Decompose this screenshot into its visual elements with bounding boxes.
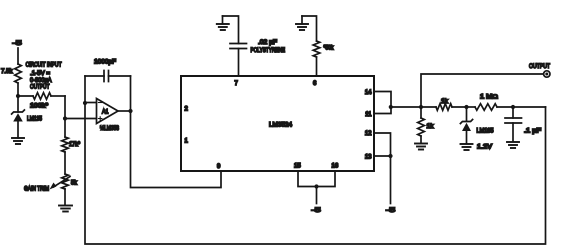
svg-text:OUTPUT: OUTPUT xyxy=(529,63,550,70)
capacitor .02uF polystyrene xyxy=(230,44,247,49)
svg-text:1 MΩ: 1 MΩ xyxy=(480,94,498,100)
svg-text:GAIN TRIM: GAIN TRIM xyxy=(24,186,49,193)
wire 17k to gain trim pot xyxy=(64,152,66,174)
svg-text:-5: -5 xyxy=(386,207,396,214)
svg-text:LM185: LM185 xyxy=(477,129,495,135)
capacitor .1uF xyxy=(512,107,514,118)
resistor 1k series xyxy=(421,106,436,108)
wire node F to -5 xyxy=(390,156,392,204)
wire A1 inverting input stub xyxy=(85,102,97,104)
ground (below .1uF) xyxy=(507,141,519,143)
wire -5 to resistor R 7.5k xyxy=(17,48,19,64)
sensor LM135 (zener symbol) xyxy=(17,96,19,112)
wire feedback rail (right, bottom, left to node C) xyxy=(85,103,546,244)
svg-text:-5: -5 xyxy=(13,40,23,47)
wire node G to node H xyxy=(391,106,421,108)
svg-text:1k: 1k xyxy=(441,99,449,105)
node F junction (pins 12-13 supply) xyxy=(388,154,392,158)
node G junction (pins 14-11 output) xyxy=(389,105,393,109)
node D junction (A1 output / feedback / pin 9 wire) xyxy=(128,109,132,113)
node I junction (LM185) xyxy=(464,105,468,109)
IC U1 LM3524 xyxy=(181,76,374,171)
resistor *50k xyxy=(313,41,320,57)
svg-text:CIRCUIT INPUT: CIRCUIT INPUT xyxy=(26,62,62,69)
svg-text:12: 12 xyxy=(365,131,372,137)
wire 100k corner down to node B xyxy=(64,96,66,119)
svg-text:1k: 1k xyxy=(427,124,435,130)
node J junction (.1uF) xyxy=(511,105,515,109)
svg-text:15: 15 xyxy=(294,164,301,170)
ground (below LM185) xyxy=(461,143,473,145)
wire pin 12 / pin 13 join xyxy=(374,133,391,156)
svg-text:1000pF: 1000pF xyxy=(94,59,116,66)
wire node B to A1 noninverting input xyxy=(65,118,97,120)
reference LM185 1.2V (zener symbol) xyxy=(466,107,468,121)
resistor 1 Mohm xyxy=(467,106,476,108)
wire pin 6 up to 50k xyxy=(316,57,318,76)
wire resistor to node A xyxy=(17,83,19,96)
svg-text:5k: 5k xyxy=(71,181,78,187)
ground (below 1k shunt) xyxy=(415,143,427,145)
wire feedback left leg xyxy=(84,76,86,103)
svg-text:16: 16 xyxy=(332,164,339,170)
svg-text:-5: -5 xyxy=(312,207,322,214)
svg-text:.02 μF: .02 μF xyxy=(258,39,277,46)
svg-text:OUTPUT: OUTPUT xyxy=(30,84,50,91)
svg-text:11: 11 xyxy=(365,112,372,118)
svg-text:13: 13 xyxy=(365,155,372,161)
wire A1 output xyxy=(118,110,131,112)
ground (below gain trim) xyxy=(59,205,72,207)
wire A1 output down and right to pin 9 xyxy=(131,111,222,188)
ground (below LM135) xyxy=(12,137,24,139)
node A junction (7.5k / 100k / LM135) xyxy=(16,94,20,98)
svg-text:.1 μF: .1 μF xyxy=(524,129,541,135)
svg-text:14: 14 xyxy=(365,90,372,96)
svg-text:100k*: 100k* xyxy=(30,103,49,109)
svg-text:POLYSTYRENE: POLYSTYRENE xyxy=(251,47,286,54)
svg-text:A1: A1 xyxy=(102,110,109,116)
svg-text:*50k: *50k xyxy=(324,46,335,52)
wire node B down to 17k xyxy=(64,119,66,138)
wire output tap up xyxy=(421,74,544,107)
output terminal xyxy=(544,71,550,77)
wire pot to ground xyxy=(64,189,66,205)
potentiometer 5k gain trim xyxy=(62,174,69,189)
op-amp A1 half LM358 xyxy=(97,99,119,124)
node H junction (1k tee) xyxy=(419,105,423,109)
wire pin 7 up to capacitor xyxy=(238,49,240,77)
resistor 100k* xyxy=(18,95,33,97)
node E junction (pins 15-16 supply) xyxy=(314,184,318,188)
svg-text:½LM358: ½LM358 xyxy=(100,125,120,132)
ground (top left, for .02uF) xyxy=(222,16,224,24)
wire pin 15 / pin 16 join xyxy=(298,171,335,187)
wire feedback right leg to output xyxy=(130,76,132,111)
ground (top right, for 50k) xyxy=(301,16,303,24)
resistor 17k* xyxy=(62,137,69,152)
wire node J to right rail xyxy=(513,106,546,108)
node B junction (100k / 17k / A1 + input) xyxy=(63,116,67,120)
svg-text:17k*: 17k* xyxy=(69,142,81,148)
svg-text:LM3524: LM3524 xyxy=(269,122,293,129)
wire node E to -5 xyxy=(316,187,318,204)
wire pin 14 / pin 11 join xyxy=(374,92,391,114)
resistor 7.5k xyxy=(15,64,22,83)
resistor 1k shunt xyxy=(420,107,422,118)
svg-text:LM135: LM135 xyxy=(27,116,43,122)
svg-text:.1-5V =: .1-5V = xyxy=(30,70,50,77)
capacitor 1000pF feedback xyxy=(85,75,104,77)
svg-text:7.5k: 7.5k xyxy=(1,69,14,75)
svg-text:1.2V: 1.2V xyxy=(477,145,492,151)
node C junction (inverting input / feedback / bottom rail) xyxy=(83,101,87,105)
